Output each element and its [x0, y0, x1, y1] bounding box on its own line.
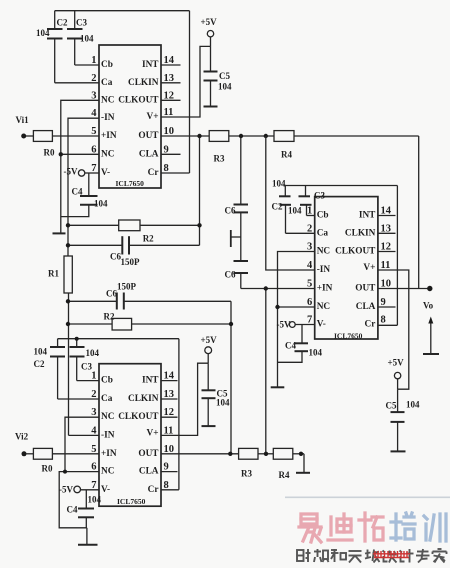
node bottom rail mid — [264, 452, 268, 456]
ground (U1 NC/C4 tie) — [53, 232, 66, 234]
ground (bottom rail) — [296, 472, 310, 474]
svg-text:Cb: Cb — [317, 211, 329, 221]
wire U2 pin11 V+ to +5V below — [378, 270, 409, 389]
svg-text:104: 104 — [272, 179, 286, 189]
svg-text:9: 9 — [164, 144, 169, 155]
svg-text:-IN: -IN — [317, 265, 331, 275]
U3 pin numbers — [91, 371, 97, 491]
wire U3 pin3 NC tie — [65, 417, 99, 471]
svg-text:C6: C6 — [106, 289, 117, 299]
wire U3 pin11 V+ to +5V — [161, 363, 208, 435]
wire U3 Cr wrap vertical — [178, 339, 180, 490]
node divider top a — [239, 134, 243, 138]
wire U3 gnd stub — [86, 528, 88, 545]
svg-text:ICL7650: ICL7650 — [116, 179, 145, 188]
node line2 left — [66, 243, 70, 247]
resistor R1 (vertical) — [64, 256, 72, 293]
U2 right stubs pins 14 13 12 9 — [378, 215, 396, 217]
ground (U3 tie) — [78, 544, 98, 546]
watermark subtitle char 频 — [314, 549, 329, 562]
svg-text:CLA: CLA — [356, 302, 376, 312]
op-amp U1 ICL7650 body — [99, 45, 161, 188]
capacitor C5 (U2) — [391, 389, 405, 451]
svg-text:CLA: CLA — [139, 467, 159, 477]
watermark big char 1 (pink) — [299, 514, 321, 542]
red overlay text (watermark url) — [373, 551, 410, 558]
svg-text:104: 104 — [309, 348, 323, 358]
node U3 pin3/pin6 tie — [63, 470, 67, 474]
wire +IN node down to U3 OUT divider — [265, 289, 267, 454]
svg-text:6: 6 — [91, 144, 96, 155]
U2 inner pin labels — [317, 211, 333, 330]
svg-text:4: 4 — [307, 260, 313, 271]
wire U3 pin1 Cb — [77, 380, 99, 382]
U1 right stubs pins 14 13 12 9 — [161, 64, 181, 66]
svg-text:CLKIN: CLKIN — [128, 78, 159, 88]
svg-text:104: 104 — [86, 348, 100, 358]
wire top Cr rail of U2 — [285, 185, 397, 187]
wire U1 pin3 NC to ground tie — [61, 100, 99, 233]
svg-text:Cr: Cr — [148, 485, 159, 495]
svg-text:9: 9 — [381, 297, 386, 308]
svg-text:3: 3 — [91, 90, 96, 101]
wire U1 pin5 +IN input — [26, 135, 33, 137]
wire U3 pin4 -IN (chain end) — [69, 434, 100, 436]
svg-text:ICL7650: ICL7650 — [334, 332, 363, 341]
wire output rail down to U2 OUT (right edge) — [418, 136, 420, 289]
wire U1 pin10 OUT rail — [161, 135, 209, 137]
capacitor C5 (U3) — [202, 363, 216, 426]
capacitor C5 (U1) — [204, 46, 218, 106]
svg-text:7: 7 — [91, 163, 96, 174]
svg-text:150P: 150P — [121, 257, 141, 267]
svg-text:10: 10 — [164, 444, 175, 455]
svg-text:Cr: Cr — [148, 168, 159, 178]
watermark subtitle char 天 — [349, 551, 362, 563]
svg-text:3: 3 — [91, 407, 96, 418]
svg-text:11: 11 — [164, 107, 174, 118]
node line4 right — [229, 322, 233, 326]
svg-text:5: 5 — [307, 279, 312, 290]
svg-text:+5V: +5V — [201, 17, 218, 27]
wire U2 pin7 V- — [295, 324, 315, 326]
wire U2 pin1 Cb — [307, 215, 315, 217]
capacitor C6 (series, upper feedback) — [121, 236, 123, 254]
svg-text:8: 8 — [164, 163, 169, 174]
watermark subtitle char 线 — [365, 550, 380, 563]
svg-text:8: 8 — [381, 315, 386, 326]
watermark subtitle char 和 — [331, 549, 346, 562]
labels U3 — [15, 335, 290, 515]
wire U3 pin8 Cr — [161, 489, 179, 491]
-5V terminal (U1) — [78, 170, 84, 176]
wire U2 pin10 OUT to Vo — [378, 288, 429, 290]
svg-text:104: 104 — [36, 28, 50, 38]
wire U1 pin1 Cb — [75, 64, 99, 66]
svg-text:Cr: Cr — [365, 320, 376, 330]
svg-text:14: 14 — [164, 371, 175, 382]
svg-text:R0: R0 — [44, 148, 55, 158]
node line4 left — [66, 322, 70, 326]
capacitor C2 (U1) — [47, 11, 63, 83]
capacitor C6 150P (series, line3) — [116, 293, 118, 310]
wire U2 pin6 NC — [278, 306, 315, 308]
watermark big char 2 (pink) — [328, 514, 352, 540]
svg-text:6: 6 — [91, 462, 96, 473]
svg-text:2: 2 — [307, 223, 312, 234]
node U2 pin6 tie — [275, 305, 279, 309]
svg-text:13: 13 — [381, 223, 392, 234]
svg-text:R1: R1 — [48, 269, 59, 279]
wire U1 pin11 V+ to +5V — [161, 46, 211, 117]
svg-text:V-: V- — [101, 168, 110, 178]
labels U2 — [272, 179, 434, 411]
svg-text:C2: C2 — [34, 359, 45, 369]
svg-text:Ca: Ca — [317, 228, 329, 238]
svg-text:INT: INT — [359, 211, 376, 221]
svg-text:NC: NC — [317, 247, 330, 257]
capacitor C4 (U3) — [78, 490, 94, 528]
ground (U2 NC tie) — [271, 386, 285, 388]
svg-text:1: 1 — [307, 206, 312, 217]
resistor R2 (lower feedback) — [112, 318, 132, 330]
watermark big char 3 (pink) — [359, 513, 383, 541]
wire U3 pin10 OUT rail — [161, 453, 239, 455]
svg-text:12: 12 — [164, 407, 175, 418]
svg-text:+IN: +IN — [101, 449, 117, 459]
watermark subtitle char 计 — [400, 549, 414, 563]
svg-text:Ca: Ca — [101, 78, 113, 88]
svg-text:INT: INT — [142, 60, 159, 70]
junction dots U3 region — [22, 322, 304, 474]
wire U3 pin7 V- — [81, 489, 99, 491]
svg-text:+IN: +IN — [101, 131, 117, 141]
svg-text:10: 10 — [381, 279, 392, 290]
svg-text:C5: C5 — [219, 71, 230, 81]
wire U2 pin8 Cr — [378, 324, 398, 326]
+5V terminal (U2) — [394, 372, 400, 378]
node line1 left — [66, 223, 70, 227]
svg-text:R4: R4 — [281, 150, 292, 160]
wire U1 pin6 NC — [61, 153, 99, 155]
output terminal Vo — [427, 286, 432, 291]
svg-text:9: 9 — [164, 462, 169, 473]
node line4 on chain — [67, 321, 69, 323]
svg-text:2: 2 — [91, 389, 96, 400]
svg-text:5: 5 — [91, 126, 96, 137]
svg-text:R4: R4 — [279, 470, 290, 480]
+5V terminal (U1) — [207, 31, 213, 37]
svg-text:R3: R3 — [241, 469, 252, 479]
watermark subtitle char 设 — [383, 551, 397, 563]
svg-text:R2: R2 — [104, 312, 115, 322]
resistor R3 (top) — [209, 131, 229, 142]
svg-text:-5V: -5V — [277, 320, 291, 330]
wire U2 Cr wrap vertical — [396, 186, 398, 326]
svg-text:NC: NC — [101, 149, 114, 159]
svg-text:Cb: Cb — [101, 60, 113, 70]
watermark big char 4 (blue) — [391, 513, 415, 540]
wire feedback line4 (R2 lower) — [68, 323, 112, 325]
svg-text:C4: C4 — [67, 505, 78, 515]
wire U1 pin7 V- — [85, 172, 99, 174]
svg-text:104: 104 — [288, 206, 302, 216]
svg-text:CLKIN: CLKIN — [345, 228, 376, 238]
svg-text:12: 12 — [164, 90, 175, 101]
capacitor C2 (U3) — [50, 339, 65, 399]
watermark subtitle char 家 — [433, 549, 447, 563]
node divider top b — [264, 134, 268, 138]
svg-text:14: 14 — [381, 206, 392, 217]
svg-text:CLA: CLA — [139, 149, 159, 159]
wire feedback line2 (C6 series) — [68, 244, 122, 246]
ground (U3 C5) — [202, 425, 216, 427]
svg-text:104: 104 — [94, 199, 108, 209]
svg-text:V-: V- — [101, 485, 110, 495]
wire chain below R1 down to U3 -IN — [68, 293, 70, 435]
svg-text:150P: 150P — [117, 282, 137, 292]
svg-text:13: 13 — [164, 389, 175, 400]
svg-text:OUT: OUT — [138, 449, 159, 459]
resistor R0 (input U1) — [33, 131, 52, 142]
faint scan line bottom right — [285, 496, 450, 498]
svg-text:2: 2 — [91, 73, 96, 84]
svg-text:12: 12 — [381, 242, 392, 253]
svg-text:C5: C5 — [386, 401, 397, 411]
resistor R2 (upper feedback) — [119, 220, 140, 231]
svg-text:C3: C3 — [76, 18, 87, 28]
svg-text:3: 3 — [307, 242, 312, 253]
node line3 left — [66, 299, 70, 303]
wire U2 pin3 NC tie — [278, 252, 315, 388]
svg-text:C2: C2 — [272, 202, 283, 212]
svg-text:NC: NC — [101, 95, 114, 105]
capacitor C2 (U2) — [279, 186, 291, 234]
svg-text:8: 8 — [164, 480, 169, 491]
wire U1 Cr wrap vertical — [189, 11, 191, 173]
capacitor C4 (U2) — [278, 325, 309, 363]
svg-text:104: 104 — [406, 400, 420, 410]
svg-text:13: 13 — [164, 73, 175, 84]
ground (Vo load) with arrow — [423, 322, 439, 354]
resistor R0 (input U3) — [33, 448, 52, 459]
wire vertical node line3/line4 down to U3 OUT rail — [230, 301, 232, 454]
junction dots U2 region — [264, 286, 433, 309]
svg-text:-IN: -IN — [101, 430, 115, 440]
svg-text:+5V: +5V — [388, 358, 405, 368]
capacitor C6 (divider upper) — [234, 204, 249, 206]
op-amp U3 ICL7650 body — [99, 364, 161, 507]
svg-text:11: 11 — [164, 425, 174, 436]
capacitor C3 (U2) — [299, 186, 312, 216]
ground (U2 C5) — [391, 450, 406, 452]
svg-text:R3: R3 — [214, 154, 225, 164]
svg-text:CLKIN: CLKIN — [128, 394, 159, 404]
-5V terminal (U2) — [289, 322, 295, 328]
svg-text:Cb: Cb — [101, 376, 113, 386]
svg-text:V+: V+ — [146, 112, 158, 122]
wire U1 pin4 -IN to feedback chain — [68, 118, 99, 256]
wire bottom rail gnd stub — [303, 454, 305, 473]
svg-text:4: 4 — [91, 425, 97, 436]
node U1 OUT — [197, 134, 201, 138]
wire U2 pin2 Ca — [286, 232, 315, 234]
svg-text:14: 14 — [164, 55, 175, 66]
svg-text:104: 104 — [34, 347, 48, 357]
svg-text:C2: C2 — [57, 18, 68, 28]
svg-text:V-: V- — [317, 320, 326, 330]
svg-text:-5V: -5V — [64, 167, 78, 177]
svg-text:CLKOUT: CLKOUT — [118, 412, 159, 422]
resistor R4 (top) — [274, 131, 294, 142]
wire top Cr rail of U1 — [55, 10, 190, 12]
labels stage 1 — [16, 17, 293, 322]
watermark big char 5 (blue) — [424, 514, 446, 541]
svg-text:11: 11 — [381, 260, 391, 271]
svg-text:Vo: Vo — [423, 301, 434, 311]
node bottom rail left — [228, 452, 232, 456]
wire U2 pin4 -IN from divider node — [266, 136, 315, 270]
input terminal Vi1 — [21, 134, 26, 139]
svg-text:10: 10 — [164, 126, 175, 137]
U2 pin numbers — [307, 206, 313, 326]
svg-text:C6: C6 — [225, 206, 236, 216]
-5V terminal (U3) — [74, 486, 81, 493]
wire feedback line1 (R2 upper) — [68, 224, 119, 226]
svg-text:1: 1 — [91, 371, 96, 382]
svg-text:+5V: +5V — [201, 335, 218, 345]
svg-text:CLKOUT: CLKOUT — [118, 95, 159, 105]
svg-text:-IN: -IN — [101, 113, 115, 123]
wire U3 pin5 +IN input — [26, 453, 33, 455]
svg-text:CLKOUT: CLKOUT — [335, 247, 376, 257]
node U2 +IN — [264, 286, 268, 290]
svg-text:7: 7 — [307, 315, 312, 326]
svg-text:V+: V+ — [146, 428, 158, 438]
wire top Cr rail of U3 — [58, 338, 179, 340]
svg-text:7: 7 — [91, 480, 96, 491]
resistor R4 (bottom) — [273, 448, 293, 459]
watermark subtitle char 射 — [297, 549, 311, 562]
svg-text:C3: C3 — [314, 191, 325, 201]
node line1 right — [197, 223, 201, 227]
wire feedback line3 (C6 150P series) — [68, 300, 117, 302]
U3 right stubs pins 14 13 12 9 — [161, 380, 178, 382]
svg-text:5: 5 — [91, 444, 96, 455]
wire U1 pin2 Ca — [55, 82, 99, 84]
svg-text:R0: R0 — [42, 464, 53, 474]
svg-text:104: 104 — [216, 398, 230, 408]
svg-text:C6: C6 — [225, 270, 236, 280]
svg-text:OUT: OUT — [355, 284, 376, 294]
input terminal Vi2 — [22, 451, 27, 456]
svg-text:4: 4 — [91, 108, 97, 119]
wire U1 pin8 Cr — [161, 172, 190, 174]
svg-text:104: 104 — [88, 495, 102, 505]
svg-text:-5V: -5V — [59, 485, 73, 495]
capacitor plate stub (mid node tick) — [230, 230, 232, 247]
svg-text:Ca: Ca — [101, 394, 113, 404]
arrowhead (Vo ground) — [428, 317, 433, 324]
U1 inner pin labels — [101, 60, 117, 178]
svg-text:V+: V+ — [363, 263, 375, 273]
wire U2 pin5 +IN — [241, 288, 315, 290]
node U1 pin6 gnd tie — [59, 152, 63, 156]
svg-text:INT: INT — [142, 376, 159, 386]
svg-text:1: 1 — [91, 55, 96, 66]
svg-text:NC: NC — [101, 412, 114, 422]
capacitor C3 (U1) — [67, 11, 83, 65]
U3 inner pin labels — [101, 376, 117, 495]
resistor R3 (bottom) — [239, 448, 258, 459]
ground (U1 C5) — [204, 106, 218, 108]
wire U3 pin2 Ca — [58, 398, 99, 400]
svg-text:NC: NC — [101, 467, 114, 477]
capacitor C3 (U3) — [70, 339, 85, 381]
svg-text:Vi1: Vi1 — [16, 115, 30, 125]
svg-text:OUT: OUT — [138, 131, 159, 141]
node top rail C3 stub (U3) — [75, 337, 79, 341]
wire vertical from OUT node down to line2 — [199, 136, 201, 245]
svg-text:104: 104 — [80, 34, 94, 44]
capacitor C4 (U1) — [61, 173, 98, 217]
svg-text:Vi2: Vi2 — [15, 432, 29, 442]
wire U3 pin6 NC to ground — [59, 472, 99, 528]
svg-text:ICL7650: ICL7650 — [117, 497, 146, 506]
watermark subtitle char 专 — [416, 549, 430, 563]
svg-text:C4: C4 — [285, 341, 296, 351]
svg-text:6: 6 — [307, 297, 312, 308]
junction dots stage1/feedback — [21, 134, 268, 327]
svg-text:C4: C4 — [72, 187, 83, 197]
U1 pin numbers — [91, 55, 97, 174]
wire C6 divider column from OUT node — [240, 136, 242, 205]
svg-text:104: 104 — [218, 82, 232, 92]
op-amp U2 ICL7650 body — [315, 197, 378, 339]
node bottom rail right — [299, 452, 303, 456]
svg-text:+IN: +IN — [317, 284, 333, 294]
capacitor C6 (divider lower) — [234, 260, 249, 262]
svg-text:NC: NC — [317, 302, 330, 312]
svg-text:R2: R2 — [143, 234, 154, 244]
+5V terminal (U3) — [205, 347, 212, 354]
